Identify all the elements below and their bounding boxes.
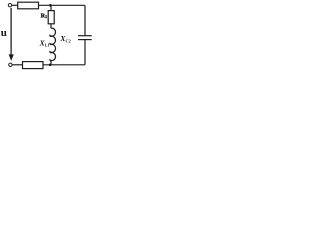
svg-text:u: u [1, 27, 7, 39]
svg-text:R1: R1 [41, 12, 47, 19]
